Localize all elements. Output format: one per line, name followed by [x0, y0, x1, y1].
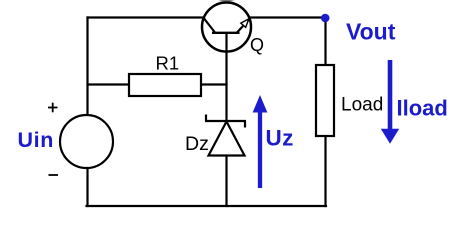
- svg-text:Q: Q: [250, 35, 264, 55]
- svg-text:Load: Load: [341, 95, 383, 116]
- svg-text:R1: R1: [156, 53, 180, 74]
- svg-text:Iload: Iload: [397, 96, 448, 121]
- svg-text:Dz: Dz: [185, 133, 209, 155]
- svg-text:Vout: Vout: [346, 19, 396, 45]
- svg-text:Uz: Uz: [266, 126, 294, 151]
- svg-text:Uin: Uin: [18, 128, 54, 152]
